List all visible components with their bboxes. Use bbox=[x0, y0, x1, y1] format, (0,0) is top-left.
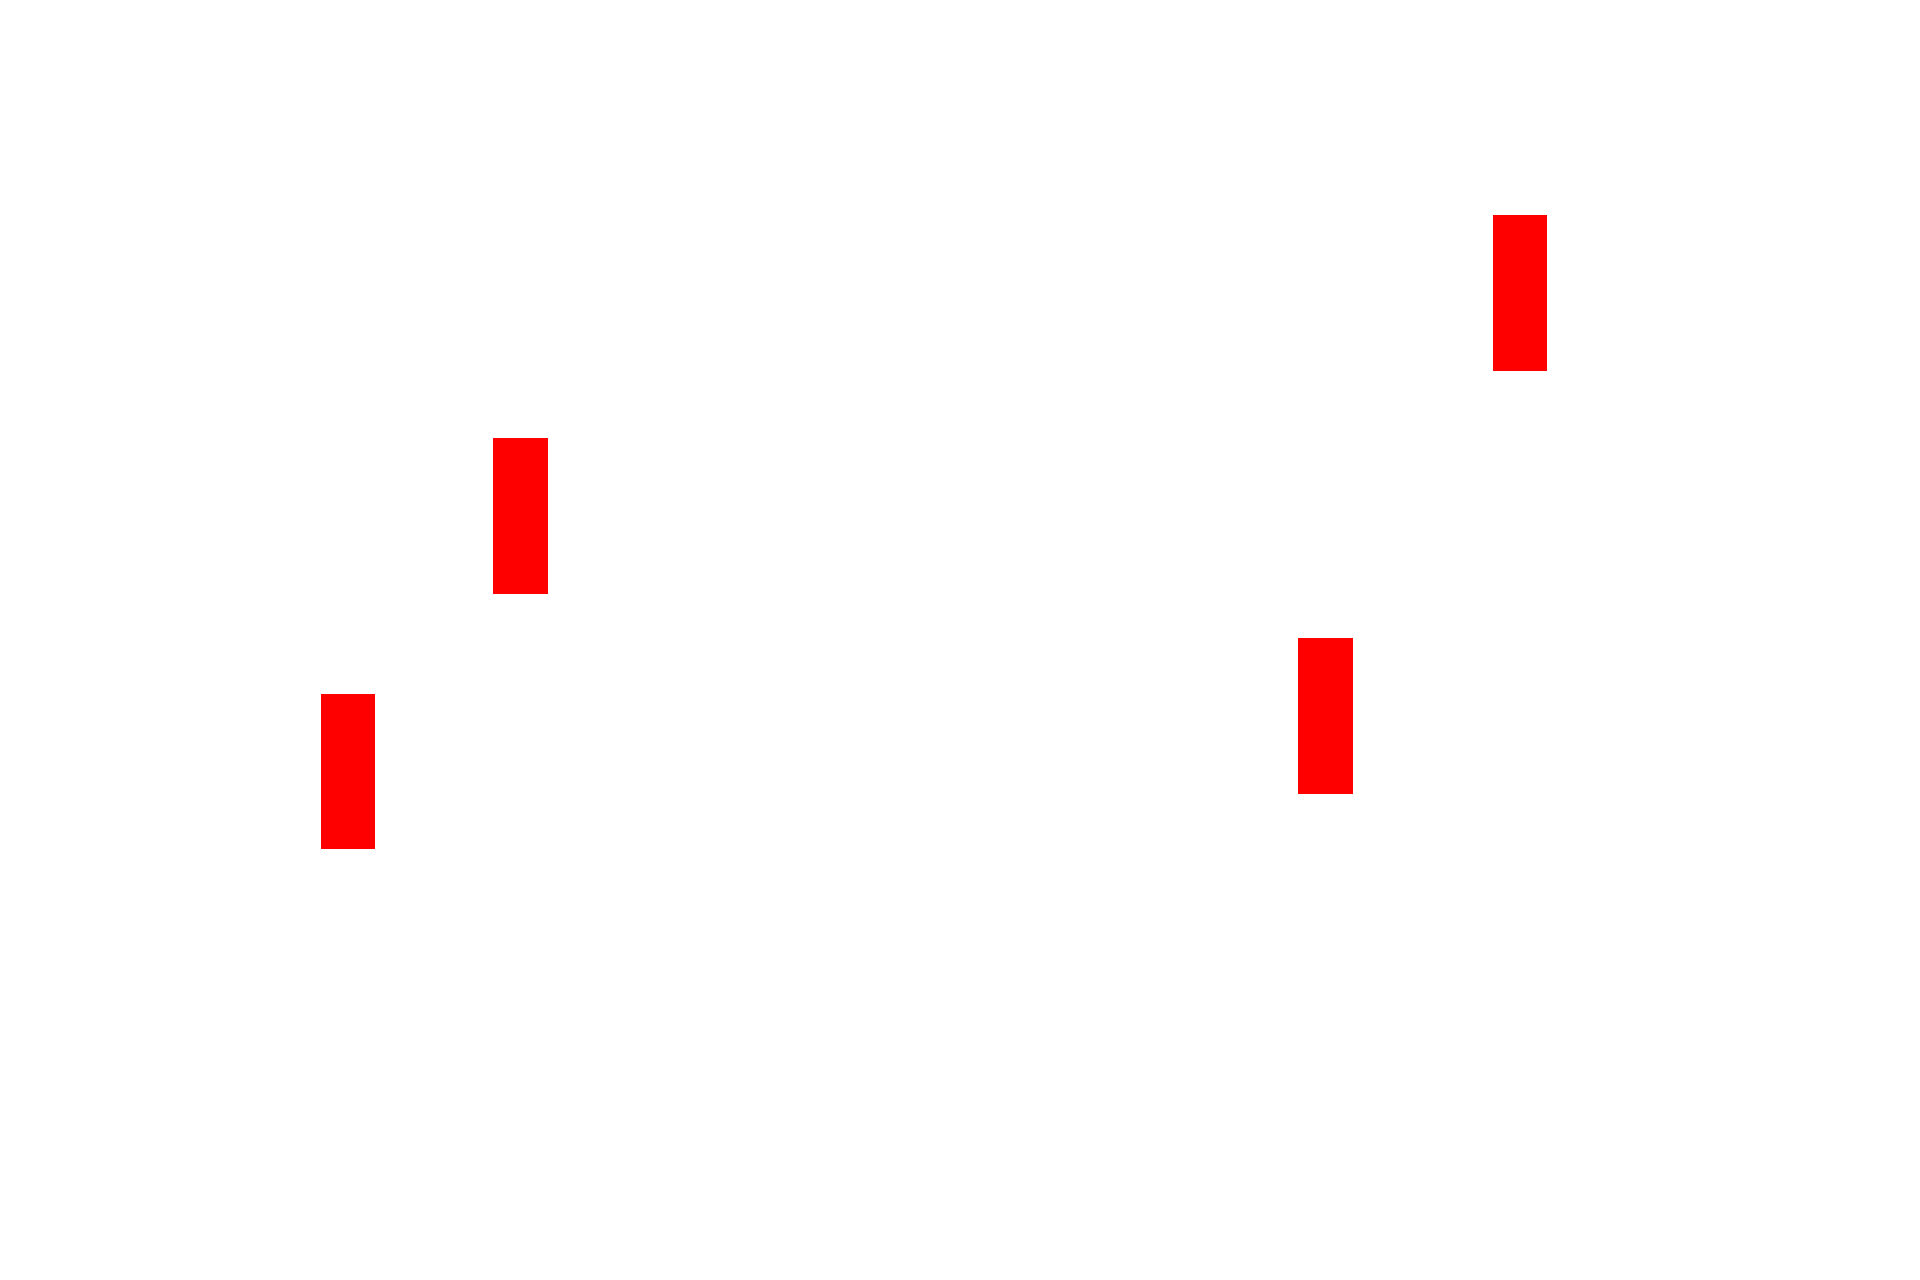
red candle bar 4 (middle right) bbox=[1298, 638, 1353, 794]
red candle bar 2 (upper left) bbox=[493, 438, 548, 594]
red candle bar 1 (top right) bbox=[1493, 215, 1547, 371]
red candle bar 3 (lower left) bbox=[321, 694, 375, 849]
